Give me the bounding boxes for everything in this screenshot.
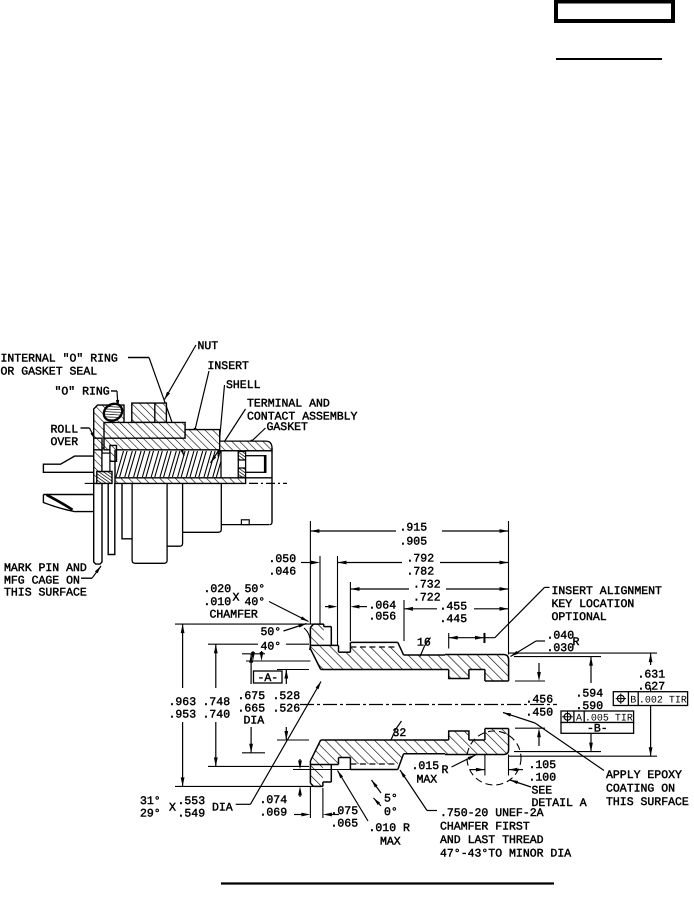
svg-text:.782: .782 bbox=[407, 566, 435, 579]
svg-text:40°: 40° bbox=[245, 596, 266, 609]
svg-text:CHAMFER: CHAMFER bbox=[210, 609, 258, 622]
svg-text:.915: .915 bbox=[400, 521, 428, 534]
svg-text:INSERT: INSERT bbox=[208, 360, 250, 373]
svg-text:.553: .553 bbox=[178, 795, 206, 808]
svg-text:.020: .020 bbox=[204, 583, 232, 596]
svg-text:.450: .450 bbox=[526, 707, 554, 720]
svg-text:B: B bbox=[630, 695, 636, 706]
svg-text:.105: .105 bbox=[529, 759, 557, 772]
svg-text:.963: .963 bbox=[169, 696, 197, 709]
svg-text:DIA: DIA bbox=[244, 715, 265, 728]
svg-text:OPTIONAL: OPTIONAL bbox=[552, 611, 607, 624]
svg-text:.030: .030 bbox=[547, 642, 575, 655]
svg-text:.748: .748 bbox=[203, 696, 231, 709]
svg-text:50°: 50° bbox=[245, 583, 266, 596]
svg-text:.905: .905 bbox=[400, 536, 428, 549]
svg-text:DETAIL A: DETAIL A bbox=[532, 797, 587, 810]
svg-text:ROLL: ROLL bbox=[51, 424, 79, 437]
svg-text:CHAMFER FIRST: CHAMFER FIRST bbox=[440, 821, 530, 834]
svg-text:.069: .069 bbox=[260, 807, 288, 820]
svg-text:KEY LOCATION: KEY LOCATION bbox=[552, 598, 635, 611]
svg-text:X: X bbox=[233, 592, 240, 605]
svg-text:INSERT ALIGNMENT: INSERT ALIGNMENT bbox=[552, 585, 663, 598]
svg-text:.010 R: .010 R bbox=[369, 822, 411, 835]
svg-text:DIA: DIA bbox=[212, 802, 233, 815]
svg-text:.056: .056 bbox=[369, 611, 397, 624]
svg-text:"O" RING: "O" RING bbox=[55, 386, 110, 399]
svg-text:.722: .722 bbox=[413, 592, 441, 605]
svg-text:.740: .740 bbox=[203, 709, 231, 722]
svg-text:THIS SURFACE: THIS SURFACE bbox=[606, 796, 689, 809]
svg-text:5°: 5° bbox=[384, 793, 398, 806]
svg-text:.594: .594 bbox=[576, 688, 604, 701]
svg-text:.040: .040 bbox=[547, 630, 575, 643]
svg-text:47°-43°TO MINOR DIA: 47°-43°TO MINOR DIA bbox=[440, 848, 571, 861]
svg-text:.046: .046 bbox=[269, 566, 297, 579]
svg-text:.549: .549 bbox=[178, 808, 206, 821]
svg-text:.015: .015 bbox=[412, 760, 440, 773]
svg-text:-A-: -A- bbox=[257, 672, 278, 685]
svg-text:.445: .445 bbox=[440, 613, 468, 626]
svg-text:MAX: MAX bbox=[380, 836, 401, 849]
svg-text:R: R bbox=[442, 764, 449, 777]
svg-text:.792: .792 bbox=[407, 552, 435, 565]
svg-text:-B-: -B- bbox=[587, 722, 608, 735]
svg-text:40°: 40° bbox=[261, 641, 282, 654]
svg-text:50°: 50° bbox=[261, 626, 282, 639]
svg-text:.526: .526 bbox=[273, 703, 301, 716]
svg-text:NUT: NUT bbox=[198, 340, 219, 353]
svg-text:.732: .732 bbox=[413, 579, 441, 592]
svg-text:.455: .455 bbox=[440, 601, 468, 614]
svg-text:MAX: MAX bbox=[417, 774, 438, 787]
svg-text:OVER: OVER bbox=[51, 436, 79, 449]
svg-text:32: 32 bbox=[393, 727, 407, 740]
svg-text:COATING ON: COATING ON bbox=[606, 783, 675, 796]
svg-text:TERMINAL AND: TERMINAL AND bbox=[247, 398, 330, 411]
svg-text:MARK PIN AND: MARK PIN AND bbox=[4, 562, 87, 575]
svg-text:OR GASKET SEAL: OR GASKET SEAL bbox=[1, 366, 98, 379]
svg-text:.100: .100 bbox=[529, 772, 557, 785]
svg-text:.074: .074 bbox=[260, 794, 288, 807]
svg-text:.675: .675 bbox=[238, 690, 266, 703]
svg-text:.010: .010 bbox=[204, 596, 232, 609]
svg-text:.953: .953 bbox=[169, 709, 197, 722]
svg-text:.528: .528 bbox=[273, 690, 301, 703]
svg-text:.456: .456 bbox=[526, 693, 554, 706]
svg-text:SEE: SEE bbox=[532, 785, 553, 798]
svg-text:INTERNAL "O" RING: INTERNAL "O" RING bbox=[1, 353, 118, 366]
svg-text:R: R bbox=[573, 636, 580, 649]
svg-text:APPLY EPOXY: APPLY EPOXY bbox=[606, 769, 682, 782]
svg-text:THIS SURFACE: THIS SURFACE bbox=[4, 587, 87, 600]
svg-text:.750-20 UNEF-2A: .750-20 UNEF-2A bbox=[440, 807, 544, 820]
svg-text:SHELL: SHELL bbox=[226, 379, 261, 392]
svg-text:31°: 31° bbox=[140, 795, 161, 808]
svg-text:X: X bbox=[169, 802, 176, 815]
svg-text:.065: .065 bbox=[331, 818, 359, 831]
svg-text:0°: 0° bbox=[384, 806, 398, 819]
svg-text:.075: .075 bbox=[331, 805, 359, 818]
svg-text:AND LAST THREAD: AND LAST THREAD bbox=[440, 834, 544, 847]
svg-text:.050: .050 bbox=[269, 553, 297, 566]
svg-text:GASKET: GASKET bbox=[267, 421, 309, 434]
svg-text:29°: 29° bbox=[140, 808, 161, 821]
svg-text:.002 TIR: .002 TIR bbox=[639, 695, 687, 706]
